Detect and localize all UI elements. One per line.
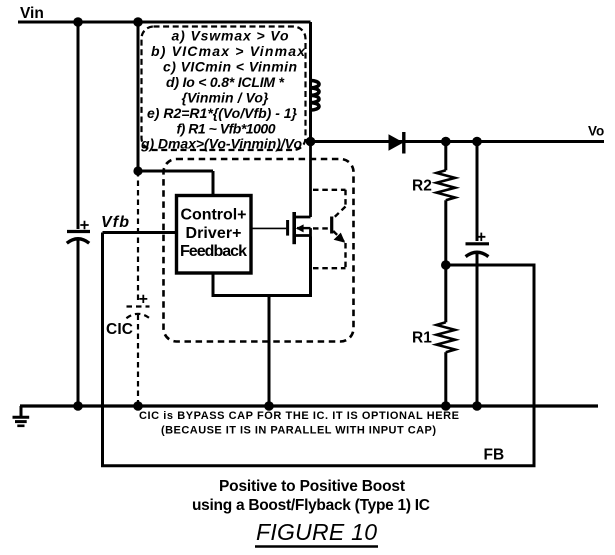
svg-text:Vin: Vin — [20, 5, 44, 22]
svg-text:FB: FB — [484, 447, 505, 464]
svg-text:CIC: CIC — [106, 321, 133, 338]
svg-text:Vfb: Vfb — [101, 214, 129, 231]
svg-text:a) Vswmax > Vo: a) Vswmax > Vo — [172, 28, 289, 44]
svg-text:{Vinmin / Vo}: {Vinmin / Vo} — [182, 90, 270, 106]
svg-text:using a Boost/Flyback (Type 1): using a Boost/Flyback (Type 1) IC — [192, 497, 430, 514]
svg-text:Positive to Positive Boost: Positive to Positive Boost — [219, 478, 405, 495]
svg-text:Feedback: Feedback — [180, 243, 247, 260]
svg-text:CIC is BYPASS CAP FOR THE IC.: CIC is BYPASS CAP FOR THE IC. IT IS OPTI… — [139, 410, 459, 422]
svg-text:R1: R1 — [412, 330, 432, 347]
svg-text:Control+: Control+ — [181, 207, 247, 224]
svg-text:f) R1 ~ Vfb*1000: f) R1 ~ Vfb*1000 — [177, 121, 276, 137]
svg-text:Vo: Vo — [588, 124, 604, 139]
svg-text:(BECAUSE IT IS IN PARALLEL WIT: (BECAUSE IT IS IN PARALLEL WITH INPUT CA… — [161, 425, 436, 437]
svg-text:b) VICmax > Vinmax: b) VICmax > Vinmax — [151, 43, 306, 59]
svg-text:g) Dmax>(Vo-Vinmin)/Vo: g) Dmax>(Vo-Vinmin)/Vo — [140, 136, 302, 152]
svg-text:e) R2=R1*{(Vo/Vfb) - 1}: e) R2=R1*{(Vo/Vfb) - 1} — [147, 105, 298, 121]
svg-text:Driver+: Driver+ — [186, 225, 242, 242]
svg-text:c) VICmin < Vinmin: c) VICmin < Vinmin — [163, 59, 297, 75]
svg-text:R2: R2 — [412, 178, 432, 195]
svg-text:FIGURE 10: FIGURE 10 — [256, 519, 377, 545]
svg-text:d) Io < 0.8* ICLIM *: d) Io < 0.8* ICLIM * — [166, 74, 285, 90]
